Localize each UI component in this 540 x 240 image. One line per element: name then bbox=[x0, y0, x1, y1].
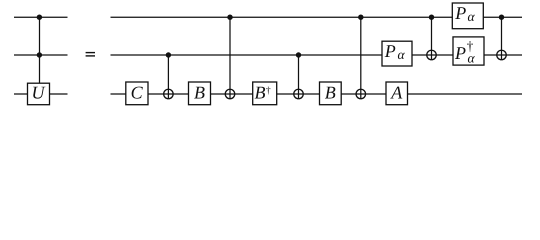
wire q0 left circuit bbox=[14, 16, 68, 18]
svg-text:†: † bbox=[467, 38, 474, 53]
wire q1 left circuit bbox=[14, 54, 68, 56]
svg-text:α: α bbox=[397, 47, 405, 62]
wire CNOT-4 vertical q0->q2 bbox=[360, 17, 362, 99]
gate B box (second) bbox=[320, 82, 342, 105]
gate U box bbox=[28, 82, 50, 104]
svg-text:U: U bbox=[32, 82, 46, 102]
control dot CNOT-3 on q1 bbox=[296, 52, 301, 57]
gate B box (first) bbox=[189, 82, 211, 105]
svg-text:†: † bbox=[266, 85, 271, 96]
wire CNOT-3 vertical q1->q2 bbox=[298, 55, 300, 99]
gate P-alpha-dagger box on q1 bbox=[453, 37, 484, 66]
CNOT-2 target on q2 bbox=[225, 89, 235, 99]
wire q1 right circuit bbox=[111, 54, 523, 56]
CNOT-4 target on q2 bbox=[356, 89, 366, 99]
gate P-alpha box on q1 bbox=[382, 41, 412, 66]
svg-text:α: α bbox=[467, 9, 475, 24]
wire CNOT-6 vertical q0->q1 bbox=[501, 17, 503, 60]
svg-text:B: B bbox=[194, 82, 205, 102]
equals sign bbox=[86, 52, 95, 57]
control dot CNOT-4 on q0 bbox=[358, 15, 363, 20]
CNOT-1 target on q2 bbox=[164, 89, 174, 99]
CNOT-5 target on q1 bbox=[427, 50, 437, 60]
gate C box bbox=[126, 82, 148, 105]
svg-text:B: B bbox=[325, 82, 336, 102]
CNOT-3 target on q2 bbox=[294, 89, 304, 99]
svg-text:P: P bbox=[454, 43, 466, 63]
control dot CNOT-5 on q0 bbox=[429, 15, 434, 20]
control dot q1 left bbox=[37, 52, 42, 57]
svg-text:B: B bbox=[255, 82, 266, 102]
control dot CNOT-1 on q1 bbox=[166, 52, 171, 57]
svg-text:P: P bbox=[384, 41, 396, 61]
control dot q0 left bbox=[37, 15, 42, 20]
gate B-dagger box bbox=[253, 82, 277, 105]
control dot CNOT-2 on q0 bbox=[227, 15, 232, 20]
gate P-alpha box on q0 bbox=[452, 3, 483, 29]
CNOT-6 target on q1 bbox=[497, 50, 507, 60]
svg-text:C: C bbox=[131, 82, 144, 102]
wire q2 left circuit bbox=[14, 93, 68, 95]
control dot CNOT-6 on q0 bbox=[499, 15, 504, 20]
wire CNOT-2 vertical q0->q2 bbox=[229, 17, 231, 99]
svg-text:A: A bbox=[390, 82, 403, 102]
wire q0 right circuit bbox=[111, 16, 523, 18]
svg-text:P: P bbox=[454, 3, 466, 23]
gate A box bbox=[386, 82, 408, 105]
wire vertical control line left circuit bbox=[39, 17, 41, 83]
wire CNOT-5 vertical q0->q1 bbox=[431, 17, 433, 60]
wire CNOT-1 vertical q1->q2 bbox=[167, 55, 169, 99]
wire q2 right circuit bbox=[111, 93, 523, 95]
